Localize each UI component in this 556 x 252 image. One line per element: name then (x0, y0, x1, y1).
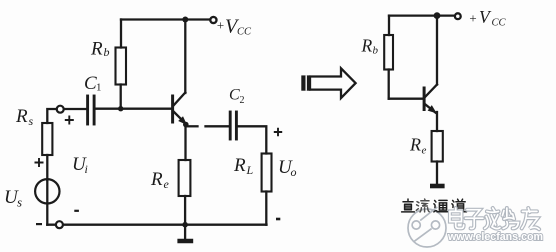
wire: right base wire (389, 98, 423, 100)
svg-text:R: R (150, 169, 163, 190)
terminal: +Vcc open circle (right) (455, 13, 461, 19)
wire: right Re bottom lead (436, 162, 438, 184)
wire: emitter to Re (184, 125, 186, 161)
node: right collector tap (434, 12, 441, 19)
glyph dao (452, 199, 467, 212)
wire: Rb bottom lead (left) (120, 85, 122, 109)
transistor Q1 collector diagonal (174, 93, 186, 106)
label plus near C1 (65, 116, 74, 125)
resistor Rs (42, 123, 52, 155)
svg-text:L: L (246, 163, 254, 177)
svg-text:C: C (229, 87, 240, 104)
svg-text:CC: CC (492, 18, 507, 29)
wire: through source to bottom rail (46, 180, 48, 225)
svg-text:R: R (233, 155, 246, 176)
svg-text:s: s (29, 114, 34, 128)
svg-text:R: R (409, 135, 421, 155)
node: emitter junction dot (183, 122, 189, 128)
capacitor C2 (230, 112, 236, 139)
svg-text:1: 1 (96, 82, 102, 94)
wire: emitter node to C2 (broken segment) (187, 125, 198, 127)
labels: left circuit (4, 16, 297, 226)
capacitor C1 (88, 96, 95, 124)
transistor Q1 base bar (171, 96, 174, 122)
node: Re-bottom rail junction (182, 222, 188, 228)
wire: right Rb top lead (388, 16, 390, 35)
node: Rb-base junction (118, 106, 123, 111)
labels: right circuit (361, 7, 507, 157)
wire: segment to C2 left plate (206, 125, 229, 127)
glyph tong (434, 200, 448, 212)
wire: Rs top corner (47, 109, 56, 123)
svg-text:s: s (17, 195, 22, 210)
ground (right) (430, 184, 445, 189)
terminal: +Vcc open circle (left) (210, 17, 216, 23)
wire: right collector vertical (436, 16, 438, 85)
label minus below Ui (74, 210, 79, 212)
source Us circle (35, 179, 59, 203)
svg-text:V: V (479, 7, 492, 27)
svg-text:2: 2 (240, 95, 245, 106)
terminal: input bottom open circle (56, 221, 63, 228)
terminal: input top open circle (57, 106, 64, 113)
label minus at output bottom (276, 218, 280, 221)
wire: input terminal to C1 (64, 108, 86, 110)
label plus at output top (274, 128, 282, 136)
wire: Rs to source Us (46, 155, 48, 180)
wire: Rb top lead (left) (120, 20, 122, 48)
wire: Re bottom lead (184, 196, 186, 225)
svg-text:e: e (422, 145, 427, 157)
watermark: molecule logo (408, 207, 446, 247)
wire: RL bottom lead to bottom rail (265, 192, 267, 225)
resistor Rb (right) (384, 35, 393, 70)
label minus at bottom terminal (36, 223, 42, 225)
svg-text:i: i (85, 162, 88, 176)
node: collector tap on top rail (182, 17, 188, 23)
resistor Rb (left) (116, 48, 127, 85)
transistor Q2 emitter diagonal with arrow (425, 104, 436, 112)
arrow: transform symbol between circuits (301, 68, 355, 98)
resistor RL (262, 154, 272, 192)
svg-text:R: R (90, 39, 103, 60)
wire: collector vertical to top rail (184, 20, 186, 94)
resistor Re (left) (179, 160, 191, 196)
svg-text:b: b (104, 45, 110, 59)
glyph liu (416, 199, 429, 212)
wire: right Rb bottom lead (388, 70, 390, 99)
ground (left) (184, 225, 186, 239)
glyph zhi (402, 199, 415, 212)
svg-text:b: b (373, 45, 379, 57)
svg-text:+: + (216, 18, 225, 33)
wire: bottom rail (47, 224, 266, 226)
svg-text:CC: CC (237, 27, 252, 38)
svg-text:+: + (469, 11, 478, 26)
label: 直流通道 (DC path) hand-drawn glyphs (402, 199, 467, 212)
transistor Q1 emitter diagonal with arrow (174, 112, 186, 124)
label plus above Us (35, 158, 44, 167)
wire: C2 to RL corner (238, 126, 266, 153)
transistor Q2 base bar (423, 88, 426, 110)
svg-text:e: e (164, 177, 170, 191)
svg-text:R: R (15, 106, 28, 127)
wire: right emitter vertical to Re (436, 112, 438, 131)
resistor Re (right) (432, 131, 443, 162)
wire: right circuit top rail (389, 14, 455, 16)
wire: base wire C1 to transistor (96, 108, 171, 110)
svg-text:o: o (291, 165, 297, 179)
wire: left circuit top rail (121, 18, 210, 20)
svg-text:R: R (361, 36, 373, 56)
svg-text:www.elecfans.com: www.elecfans.com (447, 231, 543, 243)
transistor Q2 collector diagonal (425, 85, 437, 98)
